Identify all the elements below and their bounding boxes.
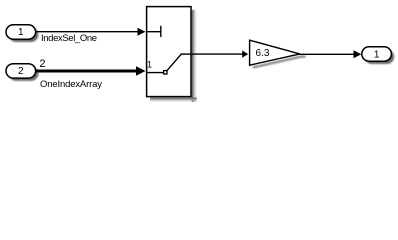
- switch pivot square: [164, 71, 167, 74]
- svg-text:1: 1: [18, 27, 24, 38]
- inport block In2: [6, 64, 36, 78]
- wire from In1 to switch control port: [36, 31, 139, 33]
- arrowhead into switch control port: [138, 28, 146, 36]
- gain block triangle: [250, 40, 300, 65]
- wide wire from In2 to switch data port: [36, 70, 137, 73]
- switch output line: [180, 53, 190, 55]
- inport In2 shadow: [9, 67, 39, 81]
- svg-text:IndexSel_One: IndexSel_One: [41, 33, 97, 44]
- multiport switch block body U1: [147, 7, 191, 97]
- switch control port marker: [147, 31, 161, 33]
- svg-text:1: 1: [147, 60, 152, 70]
- inport block In1: [6, 25, 36, 39]
- wire from gain to outport: [300, 53, 355, 55]
- switch block shadow bottom: [150, 98, 197, 103]
- svg-text:2: 2: [39, 58, 45, 70]
- svg-text:2: 2: [18, 66, 24, 77]
- arrowhead into switch data port: [136, 66, 146, 75]
- gain block shadow: [253, 57, 306, 68]
- wire from switch to gain: [191, 53, 243, 55]
- arrowhead into gain: [242, 50, 248, 57]
- outport Out1 shadow: [365, 50, 395, 64]
- arrowhead into outport: [354, 50, 362, 58]
- svg-text:6.3: 6.3: [256, 48, 270, 59]
- switch block shadow right: [192, 10, 197, 102]
- svg-text:1: 1: [374, 49, 380, 60]
- outport block Out1: [362, 47, 392, 61]
- switch data port line: [147, 72, 164, 74]
- svg-text:OneIndexArray: OneIndexArray: [40, 79, 102, 90]
- inport In1 shadow: [9, 28, 39, 42]
- switch arm diagonal: [167, 54, 181, 70]
